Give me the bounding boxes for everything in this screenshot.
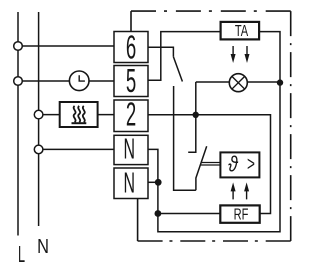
wire terminal2 feed via heater — [43, 114, 114, 116]
node terminal circle on L (row 6) — [14, 42, 23, 51]
svg-text:ϑ: ϑ — [228, 153, 239, 177]
lamp symbol — [229, 74, 247, 92]
clock symbol (time switch) — [69, 71, 89, 91]
dash-dot frame connector top-left to box6 — [130, 11, 132, 31]
wire terminal5 feed via clock — [22, 80, 114, 82]
wire terminalN1 feed — [43, 148, 114, 150]
terminal block box N1 — [114, 135, 148, 164]
wire N2 tie to junction — [148, 181, 158, 183]
wire switch lower terminal down — [174, 86, 196, 190]
mechanical link double line to theta box — [201, 163, 221, 166]
node terminal circle on N (row N) — [34, 145, 43, 154]
svg-text:N: N — [124, 166, 136, 198]
wire loop: box5 riser, top wire through TA, right side down, bottom, up to N1 — [148, 32, 280, 232]
arrow up theta right — [244, 182, 249, 199]
junction dot at lamp right — [277, 79, 283, 85]
node terminal circle on N (row 2) — [34, 110, 43, 119]
dash-dot frame right — [290, 11, 292, 241]
dash-dot frame top — [131, 10, 291, 12]
thermostat switch blade — [196, 146, 207, 190]
arrow down TA left — [231, 46, 236, 63]
RF box — [220, 205, 259, 222]
wire L mains vertical — [17, 12, 19, 236]
node terminal circle on L (row 5) — [14, 77, 23, 86]
wire N mains vertical — [38, 12, 40, 226]
svg-text:>: > — [247, 153, 255, 175]
dash-dot frame bottom — [138, 240, 291, 242]
switch blade (open) — [173, 57, 182, 82]
TA box — [221, 22, 260, 40]
arrow down TA right — [245, 46, 250, 63]
svg-text:RF: RF — [234, 206, 249, 223]
junction dot thermostat top — [193, 112, 199, 118]
wire RF right side up to thermostat junction — [196, 115, 271, 214]
svg-text:6: 6 — [126, 27, 136, 65]
wire terminal6 feed — [22, 45, 114, 47]
svg-text:2: 2 — [126, 95, 136, 133]
svg-text:N: N — [124, 132, 136, 164]
dash-dot frame connector bottom-left to N2 — [137, 199, 139, 242]
wire RF tap from junction column — [158, 213, 220, 215]
switch contact from terminal 6 — [148, 47, 173, 57]
wire terminal2 to thermostat junction — [148, 114, 196, 116]
junction dot RF tap — [155, 210, 162, 217]
terminal block box 5 — [114, 66, 148, 97]
junction dot N tie — [155, 179, 162, 186]
heater box (heating load) — [60, 102, 98, 127]
terminal block box N2 — [114, 168, 148, 199]
terminal block box 6 — [114, 32, 148, 63]
svg-text:N: N — [37, 234, 49, 257]
svg-text:L: L — [18, 241, 25, 267]
wire lamp corner down to junction and contact tip — [188, 82, 196, 152]
svg-text:TA: TA — [235, 22, 248, 39]
wire lamp branch horizontal — [196, 81, 280, 83]
terminal block box 2 — [114, 100, 148, 132]
theta box U1 — [220, 152, 259, 177]
arrow up theta left — [231, 182, 236, 199]
